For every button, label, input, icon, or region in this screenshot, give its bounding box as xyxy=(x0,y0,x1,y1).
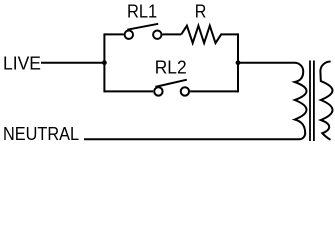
node junction dot right xyxy=(236,60,241,65)
transformer primary winding with wires to junction and NEUTRAL xyxy=(84,63,307,140)
wire RL2 to right junction xyxy=(190,90,238,92)
resistor R zigzag xyxy=(181,26,238,43)
relay contact RL1 right terminal xyxy=(153,31,161,39)
relay contact RL1 left terminal xyxy=(125,31,133,39)
wire right vertical branch xyxy=(237,33,239,92)
transformer secondary winding xyxy=(320,62,332,140)
relay contact RL2 right terminal xyxy=(181,87,189,95)
relay contact RL2 lever xyxy=(155,80,186,87)
wire LIVE to left junction xyxy=(41,62,105,64)
svg-text:R: R xyxy=(195,2,207,22)
wire RL1 to resistor R xyxy=(163,33,182,35)
wire left vertical branch xyxy=(103,33,105,92)
relay contact RL1 lever xyxy=(127,24,158,30)
svg-text:NEUTRAL: NEUTRAL xyxy=(3,124,79,144)
svg-text:RL1: RL1 xyxy=(127,2,157,22)
transformer core line 1 xyxy=(309,61,311,142)
transformer core line 2 xyxy=(313,61,315,142)
node junction dot left xyxy=(102,60,107,65)
relay contact RL2 left terminal xyxy=(154,87,162,95)
svg-text:RL2: RL2 xyxy=(155,57,187,77)
wire top branch to RL1 xyxy=(104,33,123,35)
wire bottom branch to RL2 xyxy=(104,90,153,92)
svg-text:LIVE: LIVE xyxy=(3,53,41,73)
